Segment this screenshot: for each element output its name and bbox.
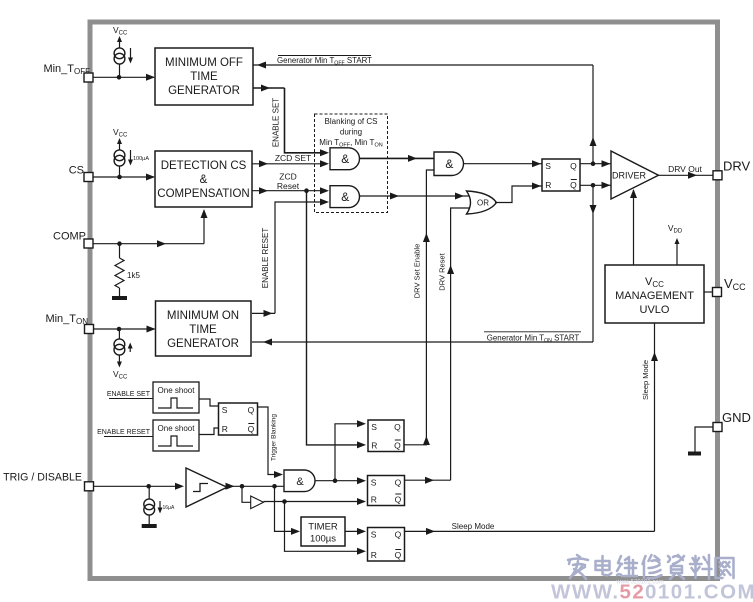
svg-text:100µA: 100µA bbox=[133, 156, 149, 162]
wire blanking AND2 output to OR gate bbox=[360, 193, 474, 200]
svg-text:DRIVER: DRIVER bbox=[612, 171, 647, 181]
svg-text:1k5: 1k5 bbox=[127, 271, 140, 280]
svg-text:OR: OR bbox=[477, 199, 489, 208]
svg-text:Q: Q bbox=[394, 440, 401, 450]
svg-text:Q: Q bbox=[570, 180, 577, 190]
watermark WWW.520101.COM bbox=[551, 581, 753, 602]
wire ZCD Reset bbox=[252, 187, 329, 194]
svg-text:Q: Q bbox=[570, 161, 577, 171]
SR latch trigger blanking bbox=[368, 420, 404, 452]
wire OR output to latch R bbox=[495, 183, 542, 203]
schmitt trigger buffer bbox=[186, 468, 227, 507]
wire VDD from UVLO bbox=[675, 238, 680, 265]
svg-text:DRV Set Enable: DRV Set Enable bbox=[413, 244, 422, 298]
AND gate blanking 1 bbox=[330, 148, 359, 170]
svg-text:GND: GND bbox=[722, 410, 751, 425]
svg-text:Q: Q bbox=[395, 494, 402, 504]
block VCC MANAGEMENT UVLO bbox=[605, 265, 704, 323]
wire trigger latch Qbar to DRV Set Enable bbox=[404, 170, 434, 445]
block MINIMUM OFF TIME GENERATOR bbox=[155, 48, 253, 105]
wire Generator Min TOFF START bbox=[253, 62, 593, 69]
wire ENABLE RESET from MIN ON generator bbox=[252, 199, 329, 317]
current source 100uA on CS bbox=[114, 150, 149, 177]
svg-text:Q: Q bbox=[395, 530, 402, 540]
wire ENABLE SET from MIN OFF generator bbox=[253, 85, 329, 157]
dashed box Blanking of CS bbox=[315, 114, 388, 213]
wire Min_TOFF to MIN OFF generator bbox=[93, 74, 155, 81]
svg-text:Q: Q bbox=[395, 478, 402, 488]
svg-text:One shoot: One shoot bbox=[158, 424, 196, 433]
Vcc supply for CS current source bbox=[113, 127, 128, 151]
svg-text:Generator Min TOFF START: Generator Min TOFF START bbox=[277, 56, 372, 67]
Vcc supply for Min_TOFF current source bbox=[113, 25, 128, 49]
svg-text:&: & bbox=[445, 157, 453, 171]
block MINIMUM ON TIME GENERATOR bbox=[156, 301, 252, 356]
svg-text:Q: Q bbox=[248, 405, 255, 415]
svg-text:DRV Out: DRV Out bbox=[668, 164, 702, 174]
AND gate main DRV set bbox=[434, 152, 464, 176]
label Generator Min TOFF START bbox=[277, 56, 372, 67]
svg-text:Min TOFF, Min TON: Min TOFF, Min TON bbox=[319, 138, 382, 149]
svg-text:16µA: 16µA bbox=[163, 505, 175, 511]
wire buffer output to middle latch R bbox=[264, 498, 367, 505]
svg-text:Blanking of CS: Blanking of CS bbox=[325, 117, 378, 126]
AND gate blanking 2 bbox=[330, 186, 360, 208]
svg-text:&: & bbox=[200, 174, 208, 186]
wire to sleep latch R bbox=[285, 502, 367, 555]
svg-text:Trigger Blanking: Trigger Blanking bbox=[271, 414, 278, 461]
SR latch DRV reset bbox=[368, 476, 405, 506]
SR latch for trigger blanking generation bbox=[219, 403, 258, 435]
SR latch sleep mode bbox=[368, 528, 405, 562]
svg-text:&: & bbox=[341, 190, 349, 204]
svg-text:TIME: TIME bbox=[189, 324, 217, 336]
pin GND bbox=[713, 410, 751, 432]
ground below TRIG current source bbox=[148, 515, 150, 526]
svg-text:Q: Q bbox=[394, 422, 401, 432]
svg-text:TIMER: TIMER bbox=[308, 522, 338, 533]
svg-text:DETECTION CS: DETECTION CS bbox=[161, 160, 247, 172]
label Generator Min TON START bbox=[484, 332, 581, 344]
wire latch Q to trigger AND gate bbox=[258, 407, 284, 478]
wire DRV Out to pin bbox=[659, 172, 714, 179]
wire main AND output to latch S bbox=[464, 160, 543, 167]
wire one shoot reset to latch R bbox=[199, 428, 219, 435]
wire one shoot set to latch S bbox=[199, 399, 219, 406]
svg-text:MANAGEMENT: MANAGEMENT bbox=[615, 290, 694, 302]
svg-text:Sleep Mode: Sleep Mode bbox=[641, 360, 650, 400]
svg-text:&: & bbox=[296, 476, 304, 488]
resistor 1k5 bbox=[115, 244, 140, 288]
svg-text:S: S bbox=[371, 530, 377, 540]
svg-text:S: S bbox=[371, 422, 377, 432]
svg-text:MINIMUM OFF: MINIMUM OFF bbox=[165, 57, 243, 69]
wire UVLO to driver supply bbox=[630, 189, 637, 265]
wire AND trigger output to latches bbox=[315, 420, 366, 484]
block TIMER 100us bbox=[301, 517, 345, 546]
block DETECTION CS AND COMPENSATION bbox=[155, 151, 252, 207]
watermark chinese characters bbox=[568, 555, 734, 579]
wire CS to DETECTION block bbox=[93, 174, 155, 181]
wire ZCD reset to trigger latch R bbox=[307, 191, 367, 449]
wire blanking AND1 output to main AND bbox=[360, 155, 435, 162]
svg-text:Q: Q bbox=[248, 424, 255, 434]
svg-text:UVLO: UVLO bbox=[640, 304, 670, 316]
svg-text:COMP: COMP bbox=[53, 231, 86, 243]
label ENABLE SET input bbox=[107, 391, 153, 399]
pin Min_TOFF bbox=[43, 63, 93, 82]
OR gate DRV reset bbox=[467, 191, 497, 214]
svg-text:0101.COM: 0101.COM bbox=[645, 581, 753, 602]
svg-text:R: R bbox=[371, 440, 377, 450]
current source I_TOFF bbox=[114, 48, 133, 77]
svg-text:Sleep Mode: Sleep Mode bbox=[452, 522, 495, 531]
svg-text:100µs: 100µs bbox=[310, 534, 336, 545]
svg-text:S: S bbox=[371, 478, 377, 488]
svg-text:GENERATOR: GENERATOR bbox=[168, 85, 240, 97]
svg-text:R: R bbox=[371, 550, 377, 560]
IC body frame bbox=[90, 22, 718, 579]
pin COMP bbox=[53, 231, 93, 249]
svg-text:Q: Q bbox=[395, 550, 402, 560]
svg-text:GENERATOR: GENERATOR bbox=[167, 338, 239, 350]
AND gate trigger bbox=[284, 470, 315, 492]
svg-text:S: S bbox=[545, 161, 551, 171]
SR latch main PWM bbox=[542, 159, 580, 191]
pin VCC bbox=[713, 276, 747, 297]
small inverter buffer bbox=[242, 486, 264, 508]
svg-text:One shoot: One shoot bbox=[158, 386, 196, 395]
wire TIMER output to sleep latch S bbox=[345, 528, 366, 535]
ground symbol at GND pin bbox=[688, 452, 701, 456]
wire UVLO to VCC pin bbox=[704, 291, 713, 293]
pin DRV bbox=[713, 159, 751, 180]
ground below 1k5 resistor bbox=[119, 288, 121, 298]
wire TRIG/DISABLE to schmitt trigger bbox=[94, 483, 185, 490]
svg-text:DRV Reset: DRV Reset bbox=[438, 252, 447, 290]
wire GND pin to ground bbox=[695, 427, 713, 452]
wire sleep latch Q to UVLO sleep mode input bbox=[405, 323, 659, 535]
one shoot block for ENABLE RESET bbox=[153, 420, 199, 451]
svg-text:R: R bbox=[222, 424, 228, 434]
svg-text:during: during bbox=[340, 128, 362, 137]
svg-text:MINIMUM ON: MINIMUM ON bbox=[167, 310, 239, 322]
wire latch Q to driver and Min TOFF start bbox=[580, 65, 611, 167]
svg-text:ENABLE SET: ENABLE SET bbox=[272, 98, 281, 147]
wire latch Qbar to driver and Min TON start bbox=[580, 182, 611, 342]
svg-text:ENABLE SET: ENABLE SET bbox=[107, 391, 151, 398]
driver buffer triangle bbox=[611, 151, 659, 199]
wire middle latch Q to DRV Reset line bbox=[405, 208, 473, 484]
label ZCD Reset bbox=[277, 172, 300, 192]
pin Min_TON bbox=[45, 313, 93, 334]
svg-text:R: R bbox=[371, 494, 377, 504]
svg-text:TRIG / DISABLE: TRIG / DISABLE bbox=[3, 472, 82, 484]
svg-text:WWW.: WWW. bbox=[551, 581, 620, 602]
svg-text:&: & bbox=[341, 152, 349, 166]
label ENABLE RESET input bbox=[97, 429, 153, 437]
wire schmitt output node bbox=[226, 483, 285, 490]
svg-text:ENABLE RESET: ENABLE RESET bbox=[261, 228, 270, 289]
wire schmitt node to TIMER input bbox=[275, 486, 301, 535]
wire ZCD SET bbox=[252, 160, 329, 167]
svg-text:TIME: TIME bbox=[190, 71, 218, 83]
pin CS bbox=[69, 165, 93, 182]
svg-text:ZCD SET: ZCD SET bbox=[275, 153, 311, 163]
current source on TRIG pin bbox=[144, 486, 175, 515]
one shoot block for ENABLE SET bbox=[153, 382, 199, 413]
svg-text:S: S bbox=[222, 405, 228, 415]
svg-text:R: R bbox=[545, 180, 551, 190]
current source I_TON bbox=[114, 329, 133, 368]
wire COMP to DETECTION block input bbox=[93, 209, 208, 247]
wire Min_TON to MIN ON generator bbox=[94, 326, 156, 333]
svg-text:Reset: Reset bbox=[277, 181, 300, 191]
svg-text:CS: CS bbox=[69, 165, 84, 177]
svg-text:Generator Min TON START: Generator Min TON START bbox=[487, 334, 580, 345]
svg-text:ENABLE RESET: ENABLE RESET bbox=[97, 429, 151, 436]
svg-text:52: 52 bbox=[620, 581, 646, 602]
svg-text:COMPENSATION: COMPENSATION bbox=[157, 188, 249, 200]
pin TRIG / DISABLE bbox=[3, 472, 93, 491]
svg-text:DRV: DRV bbox=[723, 159, 751, 174]
svg-text:ZCD: ZCD bbox=[279, 172, 296, 182]
wire Generator Min TON START bbox=[252, 339, 593, 346]
